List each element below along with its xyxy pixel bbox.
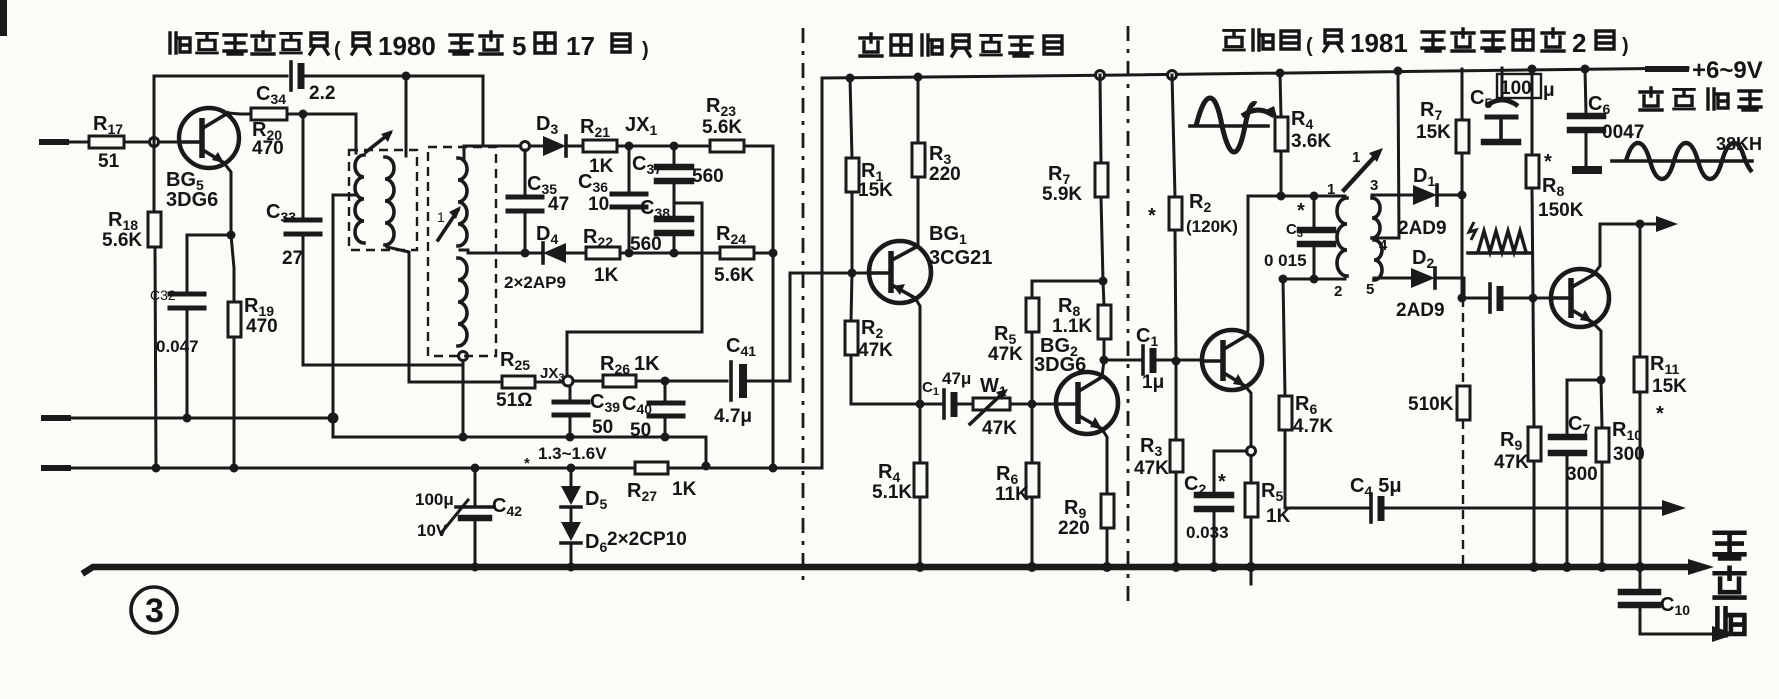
svg-text:1K: 1K — [589, 156, 614, 177]
transformer T1 secondary winding — [385, 157, 394, 245]
transformer T3 tuning arrow — [1344, 148, 1383, 190]
38kHz sine icon — [1612, 143, 1752, 179]
separator dash line right — [1127, 26, 1130, 604]
svg-text:0 015: 0 015 — [1264, 251, 1307, 270]
resistor R22 — [583, 226, 620, 286]
supply rail end blob — [1648, 66, 1686, 72]
svg-text:510K: 510K — [1408, 394, 1454, 415]
input wire — [42, 139, 89, 145]
node on rail — [402, 72, 411, 81]
detector top wire — [464, 146, 773, 253]
junction R18/line2 — [152, 464, 161, 473]
svg-text:50: 50 — [630, 420, 651, 441]
node BG3 emitter (open) — [1247, 447, 1256, 456]
capacitor C2 — [1184, 471, 1231, 567]
junction R11 ground — [1635, 562, 1645, 572]
capacitor C6 0047 — [1570, 65, 1644, 171]
resistor R2 120K — [1148, 75, 1238, 361]
svg-text:4: 4 — [1379, 237, 1388, 254]
wire C33 to T2 bottom — [303, 234, 460, 365]
wire R19 upper lead — [231, 235, 234, 302]
svg-text:27: 27 — [282, 248, 303, 269]
transistor BG4 — [1551, 269, 1609, 327]
svg-text:0.047: 0.047 — [156, 337, 199, 356]
junction R2dec rail (open) — [1168, 71, 1177, 80]
junction R10 ground — [1597, 562, 1607, 572]
separator dash line left — [802, 28, 805, 580]
resistor R24 — [714, 223, 754, 286]
transistor BG5 emitter node — [187, 163, 236, 290]
resistor R5 1K — [1245, 456, 1291, 584]
junction T1/line1 — [328, 413, 339, 424]
wire C33 upper lead — [302, 114, 305, 216]
svg-text:47K: 47K — [858, 340, 893, 361]
svg-text:5: 5 — [1366, 281, 1374, 298]
scan edge artifact top-left — [0, 0, 7, 36]
wire BG3 emitter node — [1245, 386, 1251, 446]
wire BG3 collector up — [1246, 196, 1248, 336]
svg-text:5.1K: 5.1K — [872, 482, 912, 503]
capacitor C4 5u — [1350, 475, 1686, 522]
svg-text:3DG6: 3DG6 — [1034, 354, 1086, 376]
junction R7/R8/R5 node — [1099, 277, 1108, 286]
wire BG5 collector to R20 — [228, 113, 251, 114]
node C33 tap — [299, 110, 308, 119]
svg-text:470: 470 — [252, 138, 284, 159]
capacitor C37 — [632, 146, 724, 187]
transformer T3 primary winding — [1337, 198, 1347, 276]
svg-text:1: 1 — [1327, 181, 1335, 198]
diode D4 — [504, 223, 566, 292]
svg-text:*: * — [1656, 403, 1664, 425]
transformer T1 tuning arrow — [366, 130, 393, 152]
diode D3 — [536, 113, 566, 156]
svg-text:17: 17 — [566, 31, 595, 61]
resistor R21 — [580, 116, 617, 177]
transformer T2 lower winding — [458, 258, 467, 346]
junction C38 bottom — [670, 249, 679, 258]
top supply rail — [822, 68, 1688, 78]
capacitor C34 — [256, 62, 335, 107]
svg-text:47K: 47K — [988, 344, 1023, 365]
svg-text:100μ: 100μ — [415, 490, 454, 509]
junction BG1 emitter node — [916, 400, 925, 409]
resistor R7 — [1042, 75, 1108, 281]
resistor R10 300 — [1596, 380, 1645, 567]
svg-text:1: 1 — [1352, 149, 1360, 166]
transformer T2 tuning arrow — [437, 206, 461, 240]
transformer T3 secondary winding — [1372, 198, 1382, 280]
node JX3 (open) — [540, 365, 573, 386]
svg-text:2AD9: 2AD9 — [1396, 300, 1445, 321]
junction C39 bottom — [566, 433, 575, 442]
transformer T1 dashed box — [349, 150, 417, 250]
transformer T2 dashed box — [428, 147, 496, 356]
ground bus arrow — [1688, 559, 1714, 575]
svg-text:100: 100 — [1500, 78, 1532, 99]
svg-text:*: * — [1297, 200, 1305, 222]
wire R18 leads — [154, 147, 156, 468]
svg-text:1980: 1980 — [378, 31, 436, 61]
svg-text:μ: μ — [1543, 80, 1555, 101]
svg-text:+6~9V: +6~9V — [1692, 57, 1763, 84]
transformer T2 upper winding — [458, 158, 467, 246]
junction D5 chain / ground — [567, 563, 576, 572]
diode D5 — [561, 464, 607, 513]
svg-text:*: * — [524, 455, 530, 472]
junction R1 rail — [846, 74, 855, 83]
resistor R9 — [1058, 494, 1114, 567]
svg-text:1981: 1981 — [1350, 28, 1408, 58]
ground bus line — [85, 567, 1698, 572]
junction R9 ground — [1102, 562, 1112, 572]
capacitor C1 1u — [1104, 325, 1202, 393]
junction R5 ground — [1246, 562, 1256, 572]
junction D1/R7 — [1458, 191, 1467, 200]
capacitor C5 100u — [1470, 68, 1555, 142]
junction R4 ground — [915, 562, 925, 572]
svg-text:): ) — [642, 39, 649, 61]
capacitor C35 — [508, 150, 569, 253]
junction emitter/C7 node — [1597, 376, 1606, 385]
wire BG4 collector to output arrow — [1593, 216, 1678, 275]
resistor R6 — [995, 404, 1039, 567]
svg-text:3DG6: 3DG6 — [166, 189, 218, 211]
resistor R3 47K — [1134, 361, 1183, 567]
junction R6 ground — [1027, 562, 1037, 572]
svg-text:1: 1 — [437, 209, 445, 225]
wire T1 secondary bottom to R25 — [387, 247, 409, 382]
resistor R6 4.7K — [1279, 279, 1368, 508]
junction C35 bottom — [521, 249, 530, 258]
capacitor C38 — [630, 197, 691, 255]
wire R20 to C33/T1 — [287, 114, 356, 153]
junction R9 ground — [1529, 562, 1539, 572]
svg-text:3: 3 — [145, 592, 164, 630]
capacitor C1 47u — [920, 369, 973, 418]
label 100u/10V — [415, 490, 468, 540]
svg-text:47: 47 — [548, 194, 569, 215]
svg-text:2: 2 — [1334, 283, 1342, 300]
section title: 复合信号放大器 — [860, 34, 1062, 56]
node C35 top (open) — [521, 142, 530, 151]
line2 bus — [44, 78, 822, 468]
junction R5/R6 base node — [1028, 400, 1037, 409]
resistor R19 — [228, 295, 278, 337]
junction C2 ground — [1209, 562, 1219, 572]
wire rail to T1 right winding — [405, 76, 408, 156]
coupling capacitor to BG4 — [1490, 284, 1552, 312]
resistor R26 — [573, 353, 727, 387]
svg-text:2AD9: 2AD9 — [1398, 218, 1447, 239]
input waveform sine icon — [1190, 98, 1278, 152]
svg-text:3: 3 — [1370, 177, 1378, 194]
resistor R20 — [251, 108, 287, 159]
wire BG1 collector to R3 — [917, 177, 920, 246]
junction detector right/line2 — [769, 464, 778, 473]
svg-text:47K: 47K — [982, 418, 1017, 439]
svg-text:4.7μ: 4.7μ — [714, 406, 752, 427]
wire emitter node to C2 — [1214, 451, 1247, 492]
svg-text:150K: 150K — [1538, 200, 1584, 221]
capacitor C36 — [578, 146, 646, 253]
junction R19/line2 — [230, 464, 239, 473]
svg-text:(: ( — [334, 39, 341, 61]
junction R8/R9 base bias — [1529, 294, 1538, 303]
resistor R25 — [409, 349, 561, 411]
wire T3 pin5 to D2 — [1374, 277, 1411, 280]
wire T3 pin4 to rail — [1374, 67, 1403, 239]
svg-text:1K: 1K — [672, 479, 697, 500]
svg-text:5.6K: 5.6K — [702, 117, 742, 138]
capacitor C40 — [622, 381, 683, 441]
svg-text:11K: 11K — [995, 484, 1029, 505]
transistor BG3 — [1202, 330, 1262, 390]
transistor BG1 3CG21 — [869, 223, 992, 303]
wire detector right vertical — [772, 253, 775, 468]
junction R24 right — [769, 249, 778, 258]
svg-text:1.3~1.6V: 1.3~1.6V — [538, 444, 607, 463]
junction C32/line1 — [183, 414, 192, 423]
junction R3 ground — [1171, 562, 1181, 572]
resistor R8 150K — [1526, 65, 1584, 299]
capacitor C41 — [714, 335, 756, 427]
junction D1 line / cap node — [1458, 294, 1467, 303]
junction C42 / ground — [471, 563, 480, 572]
wire BG4 emitter down — [1592, 322, 1601, 380]
resistor R9 47K — [1494, 298, 1541, 567]
svg-text:4.7K: 4.7K — [1293, 416, 1333, 437]
wire BG2 emitter down — [1102, 429, 1107, 494]
svg-text:(: ( — [1306, 35, 1313, 57]
svg-text:2×2CP10: 2×2CP10 — [607, 529, 687, 550]
node C37 top — [670, 142, 679, 151]
resistor R8 — [1052, 281, 1111, 360]
svg-text:0047: 0047 — [1602, 122, 1644, 143]
svg-text:300: 300 — [1566, 464, 1598, 485]
junction BG1 base node — [848, 269, 857, 278]
diode D1 — [1398, 165, 1462, 239]
resistor R3 — [912, 77, 961, 185]
wire C37/C38 node to JX3 — [567, 181, 702, 376]
resistor R1 — [846, 78, 893, 273]
wire C32 to bias line — [186, 308, 189, 418]
transformer T1 primary winding — [355, 155, 364, 243]
svg-text:15K: 15K — [858, 180, 893, 201]
svg-text:10V: 10V — [417, 521, 448, 540]
capacitor C33 — [266, 201, 320, 269]
junction BG3 base — [1172, 357, 1181, 366]
svg-text:): ) — [1622, 35, 1629, 57]
svg-text:1K: 1K — [594, 265, 619, 286]
wire T3 bottom line — [1283, 278, 1345, 281]
transistor BG5 3DG6 — [166, 108, 239, 211]
sawtooth waveform icon — [1468, 222, 1530, 253]
resistor R27 — [627, 462, 697, 504]
wire R17 to base node — [124, 141, 179, 144]
wire T2 top to detector wire — [463, 146, 466, 159]
resistor R17 — [89, 113, 124, 172]
capacitor C3 — [1264, 196, 1333, 279]
circled figure number 3 — [131, 587, 177, 633]
resistor R4 3.6K — [1275, 69, 1331, 197]
junction C3 bottom — [1310, 275, 1319, 284]
wire top rail left section — [154, 76, 483, 147]
capacitor C42 — [456, 464, 522, 568]
svg-text:50: 50 — [592, 417, 613, 438]
junction T2 bottom vertical — [459, 352, 468, 442]
svg-text:2: 2 — [1572, 28, 1586, 58]
svg-text:220: 220 — [929, 164, 961, 185]
junction line1/line2 merge — [702, 462, 711, 471]
svg-text:220: 220 — [1058, 518, 1090, 539]
capacitor C7 — [1551, 413, 1598, 567]
diode D2 — [1396, 247, 1487, 321]
section title: 解码器（见1981年第七期第2页） — [1224, 28, 1629, 58]
junction R7 rail (open) — [1096, 71, 1105, 80]
svg-text:2×2AP9: 2×2AP9 — [504, 273, 566, 292]
svg-text:*: * — [1544, 151, 1552, 173]
junction BG2 collector node — [1100, 356, 1109, 378]
svg-text:0.033: 0.033 — [1186, 523, 1229, 542]
svg-text:51Ω: 51Ω — [496, 390, 532, 411]
junction C40 top — [661, 377, 670, 386]
junction C7 ground — [1562, 562, 1572, 572]
wire C41 to BG1 base — [747, 273, 869, 381]
wire T3 pin3 to D1 — [1372, 194, 1413, 197]
label: 稳压电源 — [1640, 88, 1761, 110]
svg-text:5.9K: 5.9K — [1042, 184, 1082, 205]
potentiometer W1 — [970, 375, 1056, 439]
detector lower wire — [468, 252, 773, 255]
svg-text:470: 470 — [246, 316, 278, 337]
wire T2 center tap to lower detector wire — [460, 250, 468, 253]
wire BG3 collector line to T3 — [1248, 195, 1345, 198]
bias line1 — [44, 418, 706, 468]
svg-text:1μ: 1μ — [1142, 372, 1164, 393]
svg-text:*: * — [1148, 205, 1156, 227]
wire C7 branch — [1567, 380, 1601, 434]
resistor R7 15K — [1416, 69, 1469, 298]
node JX1 — [625, 142, 634, 151]
junction C40 bottom — [661, 433, 670, 442]
svg-text:*: * — [1218, 471, 1226, 493]
junction R3 rail — [914, 73, 923, 82]
svg-text:47K: 47K — [1134, 458, 1169, 479]
resistor R18 — [102, 209, 161, 251]
transistor BG2 3DG6 — [1034, 335, 1118, 434]
junction C3 top — [1310, 192, 1319, 201]
svg-text:51: 51 — [98, 151, 120, 172]
svg-text:3.6K: 3.6K — [1291, 131, 1331, 152]
resistor R4 — [872, 404, 927, 567]
svg-text:5: 5 — [512, 31, 526, 61]
svg-text:47μ: 47μ — [942, 369, 971, 388]
svg-text:10: 10 — [588, 194, 609, 215]
junction R4 lead — [1277, 192, 1286, 201]
junction T3 bottom left — [1279, 275, 1288, 284]
label: 接总线 (vertical) — [1715, 533, 1745, 636]
wire T1 tap to line1 — [333, 195, 357, 418]
svg-text:1.1K: 1.1K — [1052, 316, 1092, 337]
junction C36 bottom — [625, 249, 634, 258]
svg-text:5.6K: 5.6K — [102, 230, 142, 251]
capacitor C32 — [150, 287, 204, 356]
svg-text:15K: 15K — [1652, 376, 1687, 397]
capacitor C39 — [554, 386, 620, 438]
svg-text:47K: 47K — [1494, 452, 1529, 473]
node base BG5 (open) — [150, 138, 159, 147]
capacitor C10 — [1621, 592, 1736, 642]
svg-text:(120K): (120K) — [1186, 217, 1238, 236]
junction R11 top — [1636, 220, 1645, 229]
resistor R5 — [988, 281, 1039, 404]
svg-text:3CG21: 3CG21 — [929, 247, 992, 269]
wire R19 to line2 — [233, 337, 236, 468]
dashed branch 510K — [1408, 298, 1470, 567]
resistor R11 15K — [1634, 224, 1687, 589]
svg-text:2.2: 2.2 — [309, 83, 335, 104]
svg-text:15K: 15K — [1416, 122, 1451, 143]
pin labels T3 — [1327, 177, 1388, 300]
diode D6 — [561, 507, 687, 567]
svg-text:5.6K: 5.6K — [714, 265, 754, 286]
svg-text:560: 560 — [692, 166, 724, 187]
resistor R23 — [702, 95, 744, 152]
wire R5 top link — [1032, 280, 1102, 283]
resistor R2 — [845, 273, 920, 404]
section title: 调频机鉴频器（见1980年第5期17页） — [170, 31, 649, 61]
wire BG1 emitter down — [915, 298, 920, 404]
